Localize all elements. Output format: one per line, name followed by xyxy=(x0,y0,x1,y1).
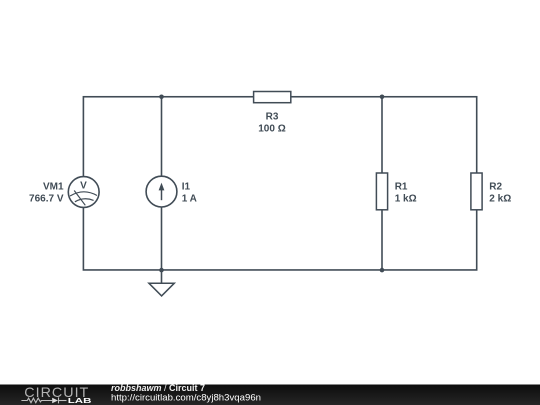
svg-text:2 kΩ: 2 kΩ xyxy=(489,193,511,204)
svg-text:V: V xyxy=(80,181,87,192)
svg-text:VM1: VM1 xyxy=(43,181,64,192)
svg-text:766.7 V: 766.7 V xyxy=(29,193,64,204)
svg-text:R2: R2 xyxy=(489,181,502,192)
svg-text:I1: I1 xyxy=(182,181,191,192)
svg-text:R3: R3 xyxy=(266,111,279,122)
svg-text:1 kΩ: 1 kΩ xyxy=(395,193,417,204)
svg-text:LAB: LAB xyxy=(68,396,92,405)
svg-text:100 Ω: 100 Ω xyxy=(258,123,285,134)
svg-text:http://circuitlab.com/c8yj8h3v: http://circuitlab.com/c8yj8h3vqa96n xyxy=(111,392,261,402)
svg-text:1 A: 1 A xyxy=(182,193,197,204)
svg-text:R1: R1 xyxy=(395,181,408,192)
